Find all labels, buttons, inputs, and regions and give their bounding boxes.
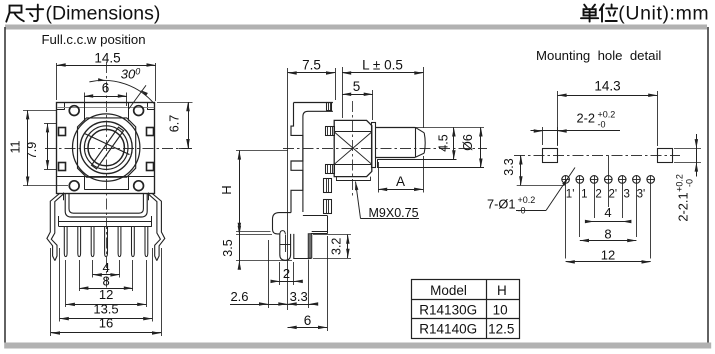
svg-text:1': 1' <box>566 189 575 201</box>
front slot axis line to 30deg arc <box>129 85 146 108</box>
side bracket arm top <box>294 103 333 213</box>
side bracket plate <box>291 103 303 213</box>
svg-text:3: 3 <box>623 189 629 201</box>
front dim 13.5 <box>60 301 153 320</box>
frame top gray bar <box>5 25 707 30</box>
svg-text:12: 12 <box>99 287 113 302</box>
mounting dim 3.3 left <box>502 155 565 185</box>
side view horizontal centerline <box>283 148 487 150</box>
svg-text:6.7: 6.7 <box>168 115 182 132</box>
front body bottom inner lines <box>84 177 129 190</box>
svg-text:H: H <box>219 185 234 194</box>
mounting dim 8 <box>580 227 637 243</box>
svg-text:4.5: 4.5 <box>437 134 451 151</box>
front dim 6 <box>84 80 127 106</box>
front rotor large circle <box>73 114 140 181</box>
svg-text:-0: -0 <box>598 120 606 130</box>
front side terminal squares <box>59 128 154 171</box>
svg-text:7-Ø1: 7-Ø1 <box>487 197 515 212</box>
side bracket bottom right <box>303 216 328 234</box>
svg-text:M9X0.75: M9X0.75 <box>369 206 419 220</box>
front dim 30 deg arc <box>89 67 154 104</box>
svg-text:(Unit):mm: (Unit):mm <box>618 2 709 24</box>
svg-text:R14140G: R14140G <box>419 322 477 337</box>
side body X cross section <box>334 132 372 165</box>
svg-text:-0: -0 <box>685 179 695 187</box>
svg-text:L ± 0.5: L ± 0.5 <box>362 58 403 73</box>
model table <box>412 279 520 338</box>
svg-text:2-2.1: 2-2.1 <box>676 192 691 221</box>
side dim 5 <box>342 79 373 120</box>
svg-text:+0.2: +0.2 <box>675 174 685 192</box>
front rotor cross line <box>85 134 130 155</box>
svg-text:12.5: 12.5 <box>488 322 514 337</box>
svg-text:H: H <box>497 283 507 298</box>
svg-text:2: 2 <box>283 266 290 281</box>
side body <box>334 120 372 181</box>
front dim 8 <box>79 273 133 290</box>
svg-text:12: 12 <box>601 247 615 262</box>
svg-text:5: 5 <box>353 79 361 94</box>
front lower housing inner U <box>69 193 143 213</box>
svg-text:3.5: 3.5 <box>221 239 235 256</box>
frame left border <box>4 27 6 343</box>
svg-text:2: 2 <box>595 189 601 201</box>
side dim 2 <box>271 262 303 285</box>
mounting dim 12 <box>566 247 651 263</box>
side dim dia 6 <box>461 127 483 167</box>
front dim 12 <box>66 287 147 306</box>
front dim 14.5 <box>57 50 156 101</box>
front pins <box>64 227 148 257</box>
svg-text:14.5: 14.5 <box>94 50 120 65</box>
front dim 4 <box>93 260 120 277</box>
frame right border <box>707 27 709 349</box>
side support lug <box>280 234 291 260</box>
side pcb pin dark <box>308 234 312 258</box>
front rotor octagon boss <box>78 118 136 177</box>
side dim H <box>219 150 288 232</box>
side dim 4.5 <box>437 127 456 159</box>
svg-text:R14130G: R14130G <box>419 302 477 317</box>
front base plate <box>59 216 152 227</box>
svg-text:4: 4 <box>604 205 611 220</box>
front dim 16 <box>51 316 161 335</box>
side bracket arm tab hatched <box>327 103 332 111</box>
mounting dim 2-2.1 with tolerance right side <box>674 134 701 222</box>
svg-text:2': 2' <box>609 189 618 201</box>
mounting dim 2-2 with tolerance <box>531 110 621 146</box>
side dim 2.6 and 3.3 <box>230 240 318 308</box>
svg-text:6: 6 <box>304 313 312 328</box>
svg-text:6: 6 <box>102 80 110 95</box>
front dim 6.7 <box>157 102 193 149</box>
front view horizontal centerline <box>45 148 192 150</box>
svg-text:7.5: 7.5 <box>302 58 321 73</box>
mounting dim 4 <box>585 205 632 223</box>
mounting hole leader lines down <box>566 155 651 258</box>
mounting dim 14.3 <box>557 79 657 146</box>
svg-text:+0.2: +0.2 <box>598 110 616 120</box>
svg-text:16: 16 <box>99 316 113 331</box>
mounting label 7-dia1 with tolerance and leader <box>487 168 575 216</box>
side dim 7.5 <box>288 58 336 311</box>
title left: chinese 尺寸 hand-drawn glyphs <box>6 5 43 22</box>
side shaft <box>375 127 425 157</box>
svg-text:(Dimensions): (Dimensions) <box>46 2 161 24</box>
mounting hole labels <box>566 189 645 201</box>
front body top inner lines <box>58 102 155 120</box>
svg-text:A: A <box>396 174 405 189</box>
front left ear and clip <box>47 193 60 260</box>
svg-text:3.3: 3.3 <box>290 289 308 304</box>
mounting holes 7x <box>562 176 655 184</box>
svg-text:3.2: 3.2 <box>329 238 343 255</box>
svg-text:13.5: 13.5 <box>93 301 118 316</box>
svg-text:2.6: 2.6 <box>230 289 248 304</box>
front dim 11 <box>9 110 69 186</box>
svg-text:Model: Model <box>430 283 467 298</box>
svg-text:1: 1 <box>581 189 587 201</box>
svg-text:10: 10 <box>493 302 508 317</box>
side dim 6 <box>288 236 328 331</box>
side label M9X0.75 with leader <box>355 182 419 220</box>
svg-text:2-2: 2-2 <box>577 111 596 126</box>
svg-text:11: 11 <box>9 140 23 153</box>
side shaft extension line top <box>415 127 484 129</box>
side bracket foot <box>273 213 292 234</box>
side shaft flat step <box>377 160 484 168</box>
title right: chinese 单位 hand-drawn glyphs <box>581 4 617 21</box>
mounting centerline <box>514 155 680 157</box>
side body left tabs hatched <box>326 127 335 174</box>
front dim 7.9 <box>25 123 57 169</box>
side dim L +-0.5 <box>342 58 424 129</box>
front lower housing outer U <box>65 193 147 217</box>
side dim A <box>378 156 424 193</box>
svg-text:+0.2: +0.2 <box>518 195 536 205</box>
front body corner notches <box>57 102 155 200</box>
mounting left square <box>543 149 558 163</box>
side dim 3.5 <box>221 226 292 270</box>
front view vertical centerline <box>106 62 108 288</box>
svg-text:Full.c.c.w position: Full.c.c.w position <box>42 32 146 47</box>
side terminal block <box>294 234 311 259</box>
mounting right square <box>658 149 673 163</box>
front body outer square <box>57 103 155 194</box>
svg-text:Mounting hole detail: Mounting hole detail <box>536 48 661 63</box>
side bushing <box>372 123 376 168</box>
front rotor slot bar <box>92 127 124 169</box>
side dim 3.2 <box>313 235 351 259</box>
frame bottom gray bar <box>4 343 711 349</box>
svg-text:Ø6: Ø6 <box>461 134 475 151</box>
front mounting hole circles <box>69 106 143 191</box>
front rotor circles <box>80 122 132 174</box>
front right ear and clip <box>152 193 165 260</box>
front pin extension lines <box>51 248 162 336</box>
svg-text:8: 8 <box>604 227 611 242</box>
side lower terminal tabs <box>324 178 332 214</box>
side view body vertical centerline <box>352 101 354 196</box>
front body frame line <box>57 176 155 178</box>
svg-text:7.9: 7.9 <box>25 142 39 159</box>
svg-text:3.3: 3.3 <box>502 158 516 175</box>
svg-text:3': 3' <box>637 189 646 201</box>
svg-text:14.3: 14.3 <box>594 79 620 94</box>
